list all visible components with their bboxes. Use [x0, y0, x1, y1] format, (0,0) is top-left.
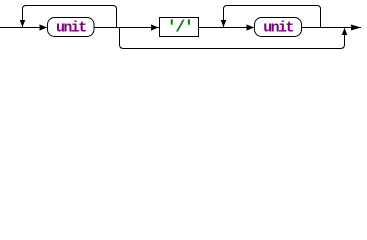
- arrow down loop1: [20, 20, 26, 27]
- svg-text:unit: unit: [56, 20, 86, 37]
- arrow right into unit box 2: [247, 24, 255, 30]
- svg-text:'/': '/': [167, 19, 193, 38]
- arrow down loop2: [221, 20, 227, 27]
- arrow right end: [351, 25, 361, 31]
- arrow right into unit box 1: [40, 24, 48, 30]
- arrow up bypass join: [342, 28, 348, 35]
- wire main line: [0, 27, 361, 29]
- railroad diagram: unit+ ('/' unit+)?: [0, 0, 367, 55]
- box unit 2: [255, 18, 302, 37]
- wire bottom bypass (optional group): [120, 28, 345, 49]
- box terminal '/': [160, 18, 199, 37]
- wire loop 1 (repeat unit): [23, 6, 117, 28]
- box unit 1: [48, 18, 95, 37]
- wire loop 2 (repeat unit): [224, 6, 321, 28]
- arrow right into '/' box: [151, 24, 159, 30]
- svg-text:unit: unit: [263, 20, 293, 37]
- background: [0, 0, 367, 55]
